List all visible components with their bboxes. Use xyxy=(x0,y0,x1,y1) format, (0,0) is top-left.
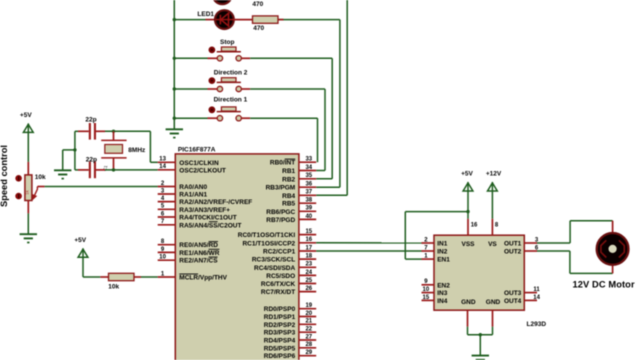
svg-text:RB5: RB5 xyxy=(282,201,295,208)
svg-text:RB1: RB1 xyxy=(282,168,295,175)
power +5V (pot) xyxy=(20,112,33,132)
power +5V (MCLR) xyxy=(74,237,88,257)
wire RB3 net vertical xyxy=(339,20,341,188)
wire C1 to OSC1 net xyxy=(105,130,150,132)
svg-text:L293D: L293D xyxy=(527,321,547,328)
C2 pin right xyxy=(96,169,105,171)
svg-text:Direction 1: Direction 1 xyxy=(214,97,248,104)
node GND junction xyxy=(479,333,482,336)
LED D1 (LED1) xyxy=(215,10,234,29)
U2 pin 9 EN2 xyxy=(422,279,451,289)
U1 pin 25 RC6/TX/CK xyxy=(261,278,316,288)
svg-text:470: 470 xyxy=(253,25,264,32)
wire RB1 horizontal to pin 34 xyxy=(316,170,325,172)
svg-text:RD0/PSP0: RD0/PSP0 xyxy=(264,306,296,313)
svg-text:RC1/T1OSI/CCP2: RC1/T1OSI/CCP2 xyxy=(242,240,295,247)
wire C2 left corner xyxy=(75,169,78,171)
svg-text:RE2/AN7/CS: RE2/AN7/CS xyxy=(179,258,218,265)
U1 pin 14 OSC2/CLKOUT xyxy=(158,164,226,174)
wire EN1 vertical xyxy=(404,212,406,260)
svg-text:OSC1/CLKIN: OSC1/CLKIN xyxy=(179,160,219,167)
wire motor top horizontal xyxy=(570,220,613,222)
svg-text:20: 20 xyxy=(305,311,312,317)
svg-text:GND: GND xyxy=(486,299,501,306)
U1 pin 16 RC1/T1OSI/CCP2 xyxy=(242,237,316,247)
svg-text:RD5/PSP5: RD5/PSP5 xyxy=(264,345,296,352)
U2 pin 7 IN2 xyxy=(424,245,447,255)
svg-text:11: 11 xyxy=(533,287,540,293)
svg-text:17: 17 xyxy=(305,245,312,251)
U2 pin 1 EN1 xyxy=(424,254,450,264)
svg-text:RD1/PSP1: RD1/PSP1 xyxy=(264,314,296,321)
svg-text:RA5/AN4/SS/C2OUT: RA5/AN4/SS/C2OUT xyxy=(179,222,241,229)
U1 pin 23 RC4/SDI/SDA xyxy=(254,262,316,272)
X1 pin bottom xyxy=(113,158,115,170)
wire C1 left corner xyxy=(75,130,78,132)
svg-text:MCLR/Vpp/THV: MCLR/Vpp/THV xyxy=(179,275,227,282)
svg-text:14: 14 xyxy=(533,295,540,301)
svg-text:RE0/AN5/RD: RE0/AN5/RD xyxy=(179,242,218,249)
wire LED1 row xyxy=(174,19,205,21)
svg-text:IN1: IN1 xyxy=(437,241,448,248)
svg-text:RD2/PSP2: RD2/PSP2 xyxy=(264,322,296,329)
IC U2 L293D body xyxy=(434,235,524,310)
svg-text:37: 37 xyxy=(305,190,312,196)
wire GND horizontal xyxy=(468,334,493,336)
U1 pin 36 RB3/PGM xyxy=(266,182,317,192)
svg-text:15: 15 xyxy=(305,229,312,235)
potentiometer RV1 body xyxy=(25,175,32,201)
svg-text:GND: GND xyxy=(461,299,476,306)
U1 pin 18 RC3/SCK/SCL xyxy=(252,254,316,264)
U1 pin 7 RA5/AN4/SS/C2OUT xyxy=(158,219,242,229)
svg-text:+5V: +5V xyxy=(461,171,473,178)
wire ground tap horizontal xyxy=(63,149,75,151)
wire +5V down xyxy=(82,257,84,277)
svg-text:RB0/INT: RB0/INT xyxy=(270,160,295,167)
ground (L293D) xyxy=(472,356,489,360)
svg-text:Stop: Stop xyxy=(220,39,234,46)
wire RB0 net vertical xyxy=(317,118,319,162)
C1 pin left xyxy=(78,130,89,132)
svg-text:OUT1: OUT1 xyxy=(504,241,522,248)
RV1 down actuator dot xyxy=(15,193,22,200)
svg-text:OUT3: OUT3 xyxy=(504,290,522,297)
wire OUT1 right xyxy=(537,242,570,244)
VS pin stub xyxy=(491,219,493,235)
RV1 pin top xyxy=(27,162,29,175)
X1 pin top xyxy=(113,131,115,140)
svg-text:16: 16 xyxy=(305,237,312,243)
wire EN1 horizontal xyxy=(405,258,421,260)
wire Direction2 to RB1 net xyxy=(250,88,325,90)
wire R2 to MCLR xyxy=(141,276,158,278)
svg-text:18: 18 xyxy=(305,254,312,260)
wire C2 to OSC2 xyxy=(105,169,158,171)
wire EN1 to VSS net xyxy=(405,211,468,213)
R2 pin left xyxy=(100,276,108,278)
node caps ground tap xyxy=(73,148,76,151)
svg-text:RC4/SDI/SDA: RC4/SDI/SDA xyxy=(254,265,295,272)
svg-text:10k: 10k xyxy=(108,284,119,291)
svg-text:40: 40 xyxy=(305,214,312,220)
node X1 top junction xyxy=(112,130,115,133)
U2 pin 6 OUT2 xyxy=(504,245,539,255)
svg-text:RE1/AN6/WR: RE1/AN6/WR xyxy=(179,250,219,257)
wire +5V to RV1 xyxy=(27,132,29,162)
svg-text:RB6/PGC: RB6/PGC xyxy=(266,209,295,216)
EN1 pin stub xyxy=(422,258,435,260)
wire RB2 horizontal to pin 35 xyxy=(316,178,332,180)
svg-text:RC0/T1OSO/T1CKI: RC0/T1OSO/T1CKI xyxy=(238,232,296,239)
U1 pin 3 RA1/AN1 xyxy=(158,188,208,198)
svg-text:RC3/SCK/SCL: RC3/SCK/SCL xyxy=(252,257,295,264)
U2 pin 14 OUT4 xyxy=(504,295,541,305)
svg-text:PIC16F877A: PIC16F877A xyxy=(178,146,216,153)
svg-text:19: 19 xyxy=(305,303,312,309)
U2 pin 15 IN4 xyxy=(422,295,448,305)
svg-text:27: 27 xyxy=(305,334,312,340)
wire RC2 to IN2 xyxy=(316,250,421,252)
svg-text:8MHz: 8MHz xyxy=(128,147,146,154)
RV1 wiper arrow xyxy=(33,187,38,200)
U1 pin 28 RD5/PSP5 xyxy=(264,342,316,352)
node Stop row junction xyxy=(173,57,176,60)
wire RB2 net vertical xyxy=(331,58,333,179)
svg-text:39: 39 xyxy=(305,206,312,212)
svg-text:RC2/CCP1: RC2/CCP1 xyxy=(263,249,296,256)
svg-text:RB4: RB4 xyxy=(282,193,295,200)
svg-text:25: 25 xyxy=(305,278,312,284)
motor pin top xyxy=(612,221,614,233)
button Direction 1 xyxy=(208,97,251,121)
U1 pin 19 RD0/PSP0 xyxy=(264,303,316,313)
U1 pin 4 RA2/AN2/VREF-/CVREF xyxy=(158,196,253,206)
wire OSC1 net vertical xyxy=(149,131,151,162)
node VSS junction xyxy=(466,210,469,213)
LED D2 (partially visible at top) xyxy=(213,0,232,4)
wire RB1 net vertical xyxy=(324,89,326,171)
svg-text:22p: 22p xyxy=(85,116,96,123)
svg-text:+12V: +12V xyxy=(486,171,502,178)
svg-text:VS: VS xyxy=(488,241,497,248)
wire Stop to RB2 net xyxy=(250,57,332,59)
node Direction 2 row junction xyxy=(173,87,176,90)
svg-text:28: 28 xyxy=(305,342,312,348)
U2 pin 11 OUT3 xyxy=(504,287,540,297)
wire RV1 wiper to RA0 xyxy=(45,186,158,188)
svg-text:22p: 22p xyxy=(86,156,97,163)
svg-text:33: 33 xyxy=(305,157,312,163)
U1 pin 39 RB6/PGC xyxy=(266,206,316,216)
wire motor bottom horizontal xyxy=(570,272,613,274)
power +12V (L293D VS) xyxy=(486,171,502,191)
wire left vertical bus xyxy=(173,0,175,129)
wire RB4 net vertical xyxy=(346,0,348,195)
wire RB3 horizontal to pin 36 xyxy=(316,186,340,188)
wire Direction 1 row left xyxy=(174,117,207,119)
svg-text:23: 23 xyxy=(305,262,312,268)
svg-text:8: 8 xyxy=(495,223,499,229)
svg-text:IN3: IN3 xyxy=(437,290,448,297)
svg-text:21: 21 xyxy=(305,319,312,325)
U2 pin 3 OUT1 xyxy=(504,237,539,247)
wire OUT2 down xyxy=(569,251,571,273)
U1 pin 9 RE1/AN6/WR xyxy=(158,247,220,257)
U1 pin 20 RD1/PSP1 xyxy=(264,311,316,321)
svg-text:29: 29 xyxy=(305,350,312,356)
svg-text:RA4/T0CKI/C1OUT: RA4/T0CKI/C1OUT xyxy=(179,215,236,222)
ground (crystal) xyxy=(54,170,71,178)
capacitor C1 22p xyxy=(89,123,96,140)
U1 pin 35 RB2 xyxy=(282,173,316,183)
VSS pin stub xyxy=(467,219,469,235)
U2 GND pin left xyxy=(467,310,469,327)
R2 pin right xyxy=(134,276,141,278)
wire GND to ground xyxy=(479,335,481,356)
node Direction 1 row junction xyxy=(173,117,176,120)
U1 pin 13 OSC1/CLKIN xyxy=(158,157,219,167)
svg-text:RA0/AN0: RA0/AN0 xyxy=(179,184,207,191)
resistor R1 470 xyxy=(253,16,279,23)
svg-text:38: 38 xyxy=(305,198,312,204)
svg-text:RB3/PGM: RB3/PGM xyxy=(266,185,296,192)
C1 pin right xyxy=(96,130,105,132)
wire ground tap vertical xyxy=(62,150,64,170)
svg-text:12V DC Motor: 12V DC Motor xyxy=(573,279,635,289)
U1 pin 2 RA0/AN0 xyxy=(158,181,208,191)
U1 pin 38 RB5 xyxy=(282,198,316,208)
svg-text:RA3/AN3/VREF+: RA3/AN3/VREF+ xyxy=(179,207,230,214)
U1 pin 21 RD2/PSP2 xyxy=(264,319,316,329)
svg-text:EN1: EN1 xyxy=(437,257,450,264)
U1 pin 26 RC7/RX/DT xyxy=(261,286,316,296)
svg-text:36: 36 xyxy=(305,182,312,188)
svg-text:RB2: RB2 xyxy=(282,176,295,183)
wire R1 to RB3 net xyxy=(278,19,340,21)
svg-text:15: 15 xyxy=(423,295,430,301)
svg-text:OSC2/CLKOUT: OSC2/CLKOUT xyxy=(179,167,226,174)
motor pin bottom xyxy=(612,266,614,274)
U1 pin 17 RC2/CCP1 xyxy=(263,245,316,255)
svg-text:RC7/RX/DT: RC7/RX/DT xyxy=(261,289,295,296)
L293D IN1 pin stub xyxy=(422,242,435,244)
wire RC1 to IN1 xyxy=(316,242,421,244)
RV1 up actuator dot xyxy=(15,175,22,182)
svg-text:RD3/PSP3: RD3/PSP3 xyxy=(264,330,296,337)
svg-text:OUT2: OUT2 xyxy=(504,249,522,256)
power +5V (L293D VSS) xyxy=(461,171,473,191)
svg-text:RC5/SDO: RC5/SDO xyxy=(266,273,295,280)
svg-text:35: 35 xyxy=(305,173,312,179)
button Direction 2 xyxy=(208,70,251,92)
IC U1 PIC16F877A body xyxy=(175,154,299,360)
U1 pin 6 RA4/T0CKI/C1OUT xyxy=(158,211,237,221)
U1 pin 10 RE2/AN7/CS xyxy=(158,255,219,265)
LED D1 pin right xyxy=(234,19,253,21)
motor M1 12V DC xyxy=(597,233,629,265)
svg-text:IN2: IN2 xyxy=(437,249,448,256)
crystal X1 xyxy=(101,140,126,158)
svg-text:RD4/PSP4: RD4/PSP4 xyxy=(264,338,296,345)
svg-text:470: 470 xyxy=(252,1,263,8)
node X1 bottom junction xyxy=(112,168,115,171)
svg-text:RB7/PGD: RB7/PGD xyxy=(266,217,295,224)
U1 pin 37 RB4 xyxy=(282,190,316,200)
U2 pin 10 IN3 xyxy=(422,287,448,297)
svg-text:OUT4: OUT4 xyxy=(504,298,522,305)
svg-text:RD6/PSP6: RD6/PSP6 xyxy=(264,353,296,360)
wire OSC1 net horizontal xyxy=(150,161,157,163)
ground (button bus) xyxy=(166,129,183,137)
L293D IN2 pin stub xyxy=(422,250,435,252)
LED D1 pin left xyxy=(206,19,215,21)
U1 pin 5 RA3/AN3/VREF+ xyxy=(158,204,231,214)
svg-text:24: 24 xyxy=(305,270,312,276)
svg-text:14: 14 xyxy=(159,164,166,170)
U2 GND pin right xyxy=(492,310,494,327)
svg-text:22: 22 xyxy=(305,327,312,333)
svg-text:10: 10 xyxy=(423,287,430,293)
wire caps left vertical xyxy=(74,131,76,170)
svg-text:10k: 10k xyxy=(35,174,46,181)
svg-text:RA2/AN2/VREF-/CVREF: RA2/AN2/VREF-/CVREF xyxy=(179,199,252,206)
U1 pin 34 RB1 xyxy=(282,165,316,175)
svg-text:26: 26 xyxy=(305,286,312,292)
wire RV1 to ground xyxy=(27,213,29,234)
wire GND left down xyxy=(467,327,469,335)
U1 pin 27 RD4/PSP4 xyxy=(264,334,316,344)
U1 pin 8 RE0/AN5/RD xyxy=(158,239,219,249)
svg-text:Speed control: Speed control xyxy=(0,145,9,207)
svg-text:10: 10 xyxy=(159,255,166,261)
svg-text:Direction 2: Direction 2 xyxy=(214,70,248,77)
wire +12V to VS xyxy=(491,191,493,219)
button Stop xyxy=(208,39,251,61)
wire GND right down xyxy=(492,327,494,335)
U1 pin 40 RB7/PGD xyxy=(266,214,316,224)
svg-text:34: 34 xyxy=(305,165,312,171)
svg-text:+5V: +5V xyxy=(74,237,86,244)
wire Direction 2 row left xyxy=(174,88,207,90)
svg-text:EN2: EN2 xyxy=(437,282,450,289)
node LED1 row junction xyxy=(173,18,176,21)
wire +5V to VSS xyxy=(467,191,469,219)
U1 pin 24 RC5/SDO xyxy=(266,270,316,280)
wire OUT2 right xyxy=(537,250,570,252)
wire OUT1 up xyxy=(569,221,571,243)
resistor R2 10k xyxy=(109,273,135,280)
C2 pin left xyxy=(78,169,89,171)
svg-text:IN4: IN4 xyxy=(437,298,448,305)
svg-text:LED1: LED1 xyxy=(197,11,214,18)
wire Stop row left xyxy=(174,57,207,59)
U1 pin 29 RD6/PSP6 xyxy=(264,350,316,360)
svg-text:16: 16 xyxy=(471,223,478,229)
capacitor C2 22p xyxy=(89,162,96,179)
RV1 pin bottom xyxy=(27,201,29,214)
svg-text:+5V: +5V xyxy=(20,112,32,119)
svg-text:RA1/AN1: RA1/AN1 xyxy=(179,192,207,199)
U1 pin 33 RB0/INT xyxy=(270,157,316,167)
wire +5V corner to R2 xyxy=(83,276,100,278)
wire Direction1 to RB0 net xyxy=(250,117,317,119)
U2 pin 2 IN1 xyxy=(424,237,447,247)
RV1 wiper pin xyxy=(37,186,44,188)
svg-text:13: 13 xyxy=(159,157,166,163)
svg-text:VSS: VSS xyxy=(461,241,475,248)
wire RB4 horizontal to pin 37 xyxy=(316,194,347,196)
ground (pot) xyxy=(20,234,37,242)
svg-text:RC6/TX/CK: RC6/TX/CK xyxy=(261,281,296,288)
U1 pin 15 RC0/T1OSO/T1CKI xyxy=(238,229,316,239)
U1 pin 1 MCLR/Vpp/THV xyxy=(158,271,228,281)
U1 pin 22 RD3/PSP3 xyxy=(264,327,316,337)
